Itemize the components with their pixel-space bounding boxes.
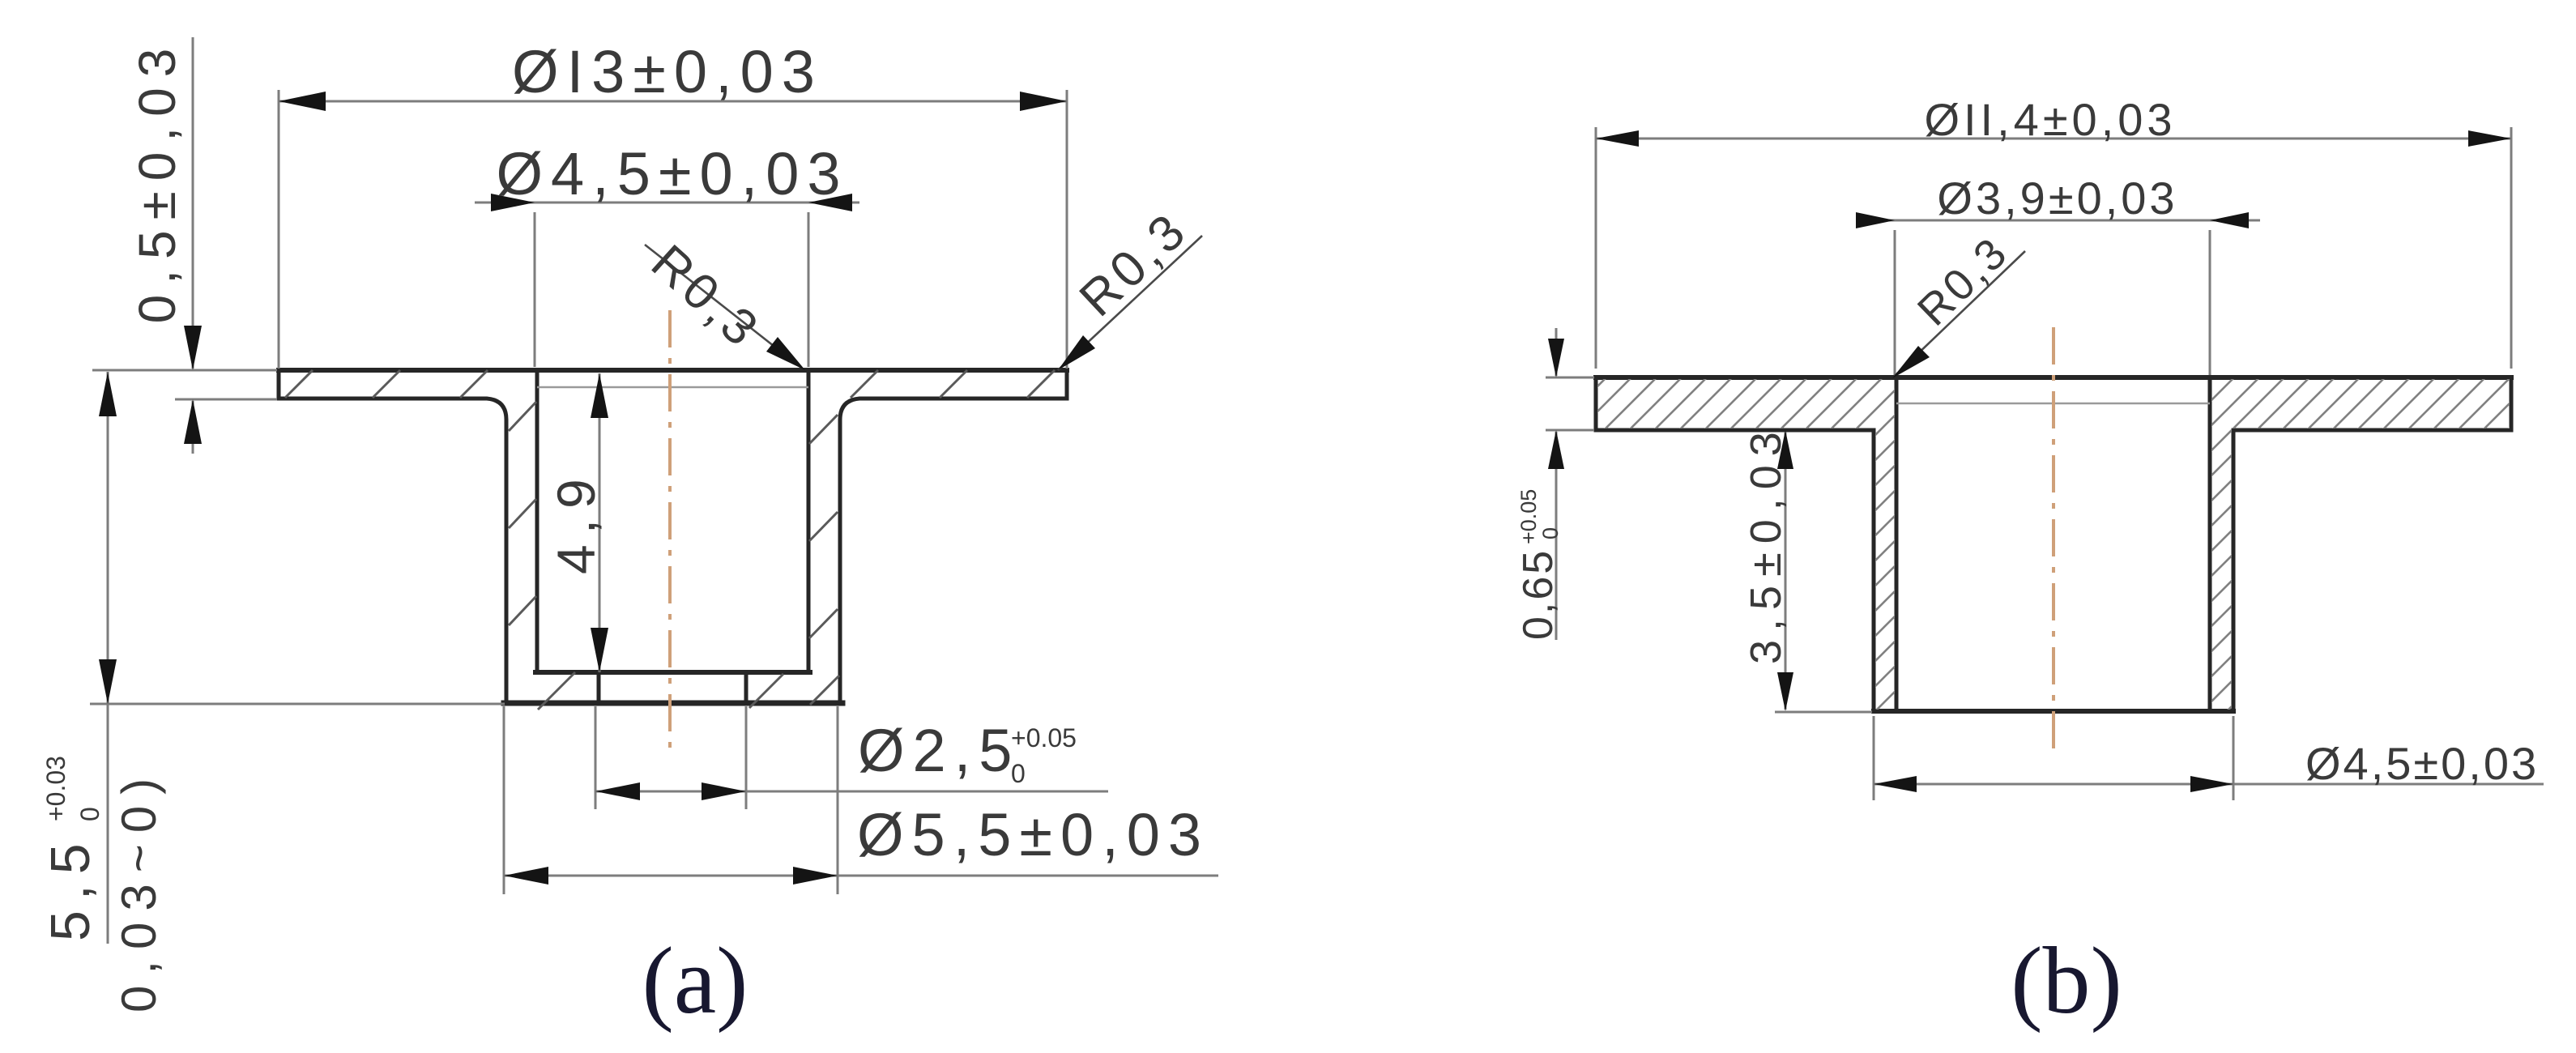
dim 0,5 flange thickness (a) xyxy=(192,37,194,369)
centerline (b) xyxy=(2052,327,2055,754)
dim 5,5 overall height (a) xyxy=(107,372,109,944)
flange left edge (a) xyxy=(277,370,281,399)
leader R0,3 left (a) xyxy=(645,245,800,367)
svg-text:0: 0 xyxy=(75,807,104,821)
dim O4,5 tube outer dia (b) xyxy=(1873,716,1875,800)
flange top surface (b) xyxy=(1596,375,2511,380)
hatching flange right (a) xyxy=(851,370,878,398)
dim 0,65 flange thickness (b) xyxy=(1555,328,1558,376)
svg-text:5,5: 5,5 xyxy=(40,833,101,941)
flange underside left (b) xyxy=(1596,428,1874,433)
dim line O13 (a) xyxy=(279,100,1067,103)
bore lip line (b) xyxy=(1896,403,2210,405)
dim O3,9 bore dia (b) xyxy=(1856,220,2260,222)
svg-text:0,65: 0,65 xyxy=(1515,548,1562,640)
tube bottom face (a) xyxy=(504,701,842,706)
counterbore wall right (a) xyxy=(807,372,811,672)
svg-text:+0.05: +0.05 xyxy=(1516,489,1541,544)
hatching flange left (b) xyxy=(1597,379,1895,428)
svg-text:0,03~0): 0,03~0) xyxy=(112,767,166,1013)
flange underside left with fillet into tube wall (a) xyxy=(279,399,506,701)
svg-text:ØII,4±0,03: ØII,4±0,03 xyxy=(1924,94,2176,145)
flange right edge (a) xyxy=(1065,370,1069,399)
dim O2,5 small hole (a) xyxy=(595,706,597,809)
hatching tube wall left (a) xyxy=(509,402,536,431)
flange underside right with fillet into tube wall (a) xyxy=(840,399,1067,701)
svg-text:Ø3,9±0,03: Ø3,9±0,03 xyxy=(1937,173,2177,224)
hatching bottom block right (a) xyxy=(749,674,783,708)
svg-text:(b): (b) xyxy=(2011,927,2122,1034)
hatching tube wall left (b) xyxy=(1875,428,1895,710)
flange left edge (b) xyxy=(1594,377,1598,430)
svg-text:(a): (a) xyxy=(642,927,748,1034)
dim line O4,5 (a) xyxy=(475,202,859,204)
svg-text:0: 0 xyxy=(1011,759,1026,788)
flange underside right (b) xyxy=(2233,428,2511,433)
dim 4,9 bore depth (a) xyxy=(599,373,601,672)
flange right edge (b) xyxy=(2510,377,2514,430)
bore lip line (a) xyxy=(537,386,808,389)
svg-text:3,5±0,03: 3,5±0,03 xyxy=(1742,423,1790,664)
leader R0,3 (b) xyxy=(1895,251,2025,376)
svg-text:ØI3±0,03: ØI3±0,03 xyxy=(512,38,823,105)
hatching tube wall right (b) xyxy=(2211,428,2232,710)
small hole left edge (a) xyxy=(597,672,601,703)
svg-text:Ø5,5±0,03: Ø5,5±0,03 xyxy=(857,801,1209,868)
bore wall right (b) xyxy=(2208,377,2212,711)
svg-text:0,5±0,03: 0,5±0,03 xyxy=(128,38,186,324)
svg-text:Ø2,5: Ø2,5 xyxy=(858,717,1020,784)
small hole right edge (a) xyxy=(744,672,748,703)
svg-text:0: 0 xyxy=(1538,527,1563,539)
dim 3,5 tube height (b) xyxy=(1785,432,1787,710)
svg-text:Ø4,5±0,03: Ø4,5±0,03 xyxy=(496,140,848,207)
hatching flange left (a) xyxy=(285,370,313,398)
svg-text:+0.05: +0.05 xyxy=(1011,723,1077,752)
dim O5,5 tube outer dia (a) xyxy=(503,706,505,894)
centerline (a) xyxy=(668,310,672,757)
tube bottom face (b) xyxy=(1874,709,2233,714)
leader R0,3 right (a) xyxy=(1058,236,1202,370)
tube outer wall left (b) xyxy=(1872,430,1876,711)
counterbore wall left (a) xyxy=(535,372,540,672)
counterbore bottom shelf (a) xyxy=(535,670,810,675)
hatching bottom block left (a) xyxy=(538,672,575,710)
hatching tube wall right (a) xyxy=(809,415,838,444)
svg-text:+0.03: +0.03 xyxy=(41,756,70,821)
flange top surface (a) xyxy=(279,368,1067,373)
dim O11,4 flange dia (b) xyxy=(1596,138,2511,140)
bore wall left (b) xyxy=(1895,377,1899,711)
svg-text:Ø4,5±0,03: Ø4,5±0,03 xyxy=(2305,738,2539,789)
hatching flange right (b) xyxy=(2211,379,2510,428)
tube outer wall right (b) xyxy=(2232,430,2236,711)
svg-text:4,9: 4,9 xyxy=(546,468,606,574)
